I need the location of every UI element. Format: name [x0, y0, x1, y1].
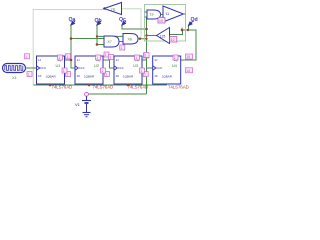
svg-text:11: 11	[166, 12, 170, 16]
svg-text:U3: U3	[133, 63, 139, 68]
svg-text:74LS76AD: 74LS76AD	[93, 84, 114, 89]
svg-text:V1: V1	[75, 102, 81, 107]
svg-text:U2: U2	[94, 63, 100, 68]
svg-text:14: 14	[186, 69, 190, 73]
svg-text:74LS76AD: 74LS76AD	[128, 84, 149, 89]
svg-text:X7: X7	[108, 40, 112, 44]
svg-text:10: 10	[159, 19, 163, 23]
svg-text:7S: 7S	[111, 7, 116, 12]
svg-text:15: 15	[186, 55, 190, 59]
svg-text:X1: X1	[12, 75, 18, 80]
svg-text:19: 19	[150, 12, 154, 16]
svg-text:74LS76AD: 74LS76AD	[52, 84, 73, 89]
svg-text:U4: U4	[172, 63, 178, 68]
svg-text:115: 115	[160, 34, 166, 38]
svg-text:74LS76AD: 74LS76AD	[168, 84, 189, 89]
svg-text:U1: U1	[56, 63, 62, 68]
svg-text:12: 12	[171, 38, 175, 42]
svg-text:X8: X8	[128, 37, 132, 41]
